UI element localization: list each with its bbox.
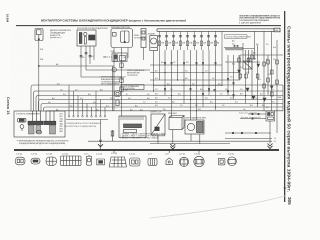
svg-text:ВЕНТИЛЯТОР СИСТЕМЫ ОХЛАЖДЕНИЯ: ВЕНТИЛЯТОР СИСТЕМЫ ОХЛАЖДЕНИЯ И КОНДИЦИО… xyxy=(41,19,186,23)
svg-text:С-32 (С): С-32 (С) xyxy=(228,154,235,156)
svg-text:Схема 16: Схема 16 xyxy=(6,97,10,115)
svg-text:Схемы электрооборудования моде: Схемы электрооборудования моделей 50 сер… xyxy=(286,26,293,192)
svg-text:4. ДАТЧИК ДАВЛЕНИЯ: 4. ДАТЧИК ДАВЛЕНИЯ xyxy=(239,22,262,25)
svg-text:С-24 (З): С-24 (З) xyxy=(96,154,102,156)
svg-text:С-21 (Ч): С-21 (Ч) xyxy=(46,154,52,156)
svg-text:С-28: С-28 xyxy=(165,154,169,156)
svg-text:16-294: 16-294 xyxy=(6,14,10,23)
svg-text:305: 305 xyxy=(287,197,292,205)
svg-text:С-19 (С): С-19 (С) xyxy=(16,154,23,156)
svg-text:С-26 (С): С-26 (С) xyxy=(129,154,136,156)
svg-text:С-29 (С): С-29 (С) xyxy=(179,154,186,156)
svg-text:С-30 (Ч): С-30 (Ч) xyxy=(194,154,200,156)
svg-text:С-20 (С): С-20 (С) xyxy=(31,154,38,156)
svg-text:С-31: С-31 xyxy=(217,154,221,156)
svg-text:С-23: С-23 xyxy=(84,154,88,156)
svg-text:С-25 (Ч): С-25 (Ч) xyxy=(111,153,117,155)
svg-text:С-22 (С): С-22 (С) xyxy=(62,154,69,156)
svg-text:С-27: С-27 xyxy=(148,154,152,156)
